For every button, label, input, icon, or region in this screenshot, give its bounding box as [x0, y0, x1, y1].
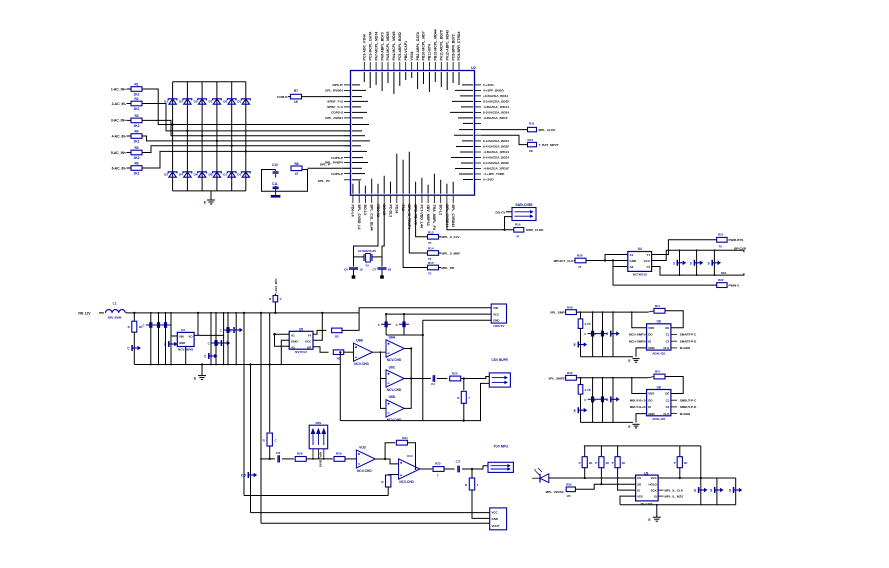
svg-text:C1: C1 — [666, 333, 670, 337]
svg-text:VOUT: VOUT — [492, 524, 500, 528]
wire cap-block loop — [262, 170, 308, 192]
svg-text:9-4-BAZGA_BD14: 9-4-BAZGA_BD14 — [483, 156, 509, 160]
resistor RP1 — [584, 446, 586, 457]
capacitor C4 — [170, 313, 172, 365]
svg-text:D5: D5 — [194, 100, 198, 104]
svg-text:VCC: VCC — [644, 259, 651, 263]
wire — [411, 378, 431, 380]
capacitor — [210, 313, 212, 365]
wire — [564, 311, 567, 313]
wire pin stub right 1 — [475, 84, 482, 86]
wire — [127, 152, 132, 154]
node SMBUT-P-C — [671, 399, 677, 401]
wire Y1 to R21 — [652, 240, 717, 255]
resistor R29 — [334, 457, 345, 462]
wire — [142, 146, 351, 153]
svg-text:PB2-ABPL_DATA: PB2-ABPL_DATA — [416, 31, 420, 60]
svg-text:R22: R22 — [718, 278, 724, 282]
wire pin stub bottom 15 — [440, 195, 442, 203]
diode D5 (TVS top row) — [198, 99, 205, 104]
svg-text:R/4: R/4 — [655, 370, 660, 374]
wire pin stub bottom 2 — [358, 195, 360, 203]
wire pin stub right 10 — [475, 134, 482, 136]
svg-text:PA12-ABPL_MD43: PA12-ABPL_MD43 — [445, 30, 449, 61]
svg-text:PB0-VCAP1: PB0-VCAP1 — [404, 41, 408, 61]
wire pin stub bottom 4 — [371, 195, 373, 203]
svg-text:9-3-BAZGA_BD14: 9-3-BAZGA_BD14 — [483, 111, 509, 115]
svg-text:E: E — [574, 409, 576, 413]
wire A1/A3 tie — [275, 334, 290, 346]
wire right verticals — [700, 446, 702, 505]
wire mini rail — [386, 334, 423, 336]
svg-text:75: 75 — [428, 241, 432, 245]
resistor R30 — [566, 487, 575, 492]
wire long vertical — [422, 320, 424, 420]
svg-text:P: P — [579, 461, 581, 465]
svg-text:R16: R16 — [515, 223, 521, 227]
svg-text:C11: C11 — [272, 182, 278, 186]
wire long feeder 4 — [269, 313, 271, 432]
svg-text:NCV-CHD: NCV-CHD — [399, 480, 414, 484]
svg-text:Y2: Y2 — [646, 265, 650, 269]
svg-text:VIN: VIN — [493, 306, 498, 310]
svg-text:NCV-CHD: NCV-CHD — [354, 362, 369, 366]
wire pin stub left 5 — [344, 106, 351, 108]
wire pin stub bottom 7 — [390, 195, 392, 203]
wire — [345, 458, 356, 460]
svg-text:18: 18 — [388, 268, 392, 272]
wire T_BAT net — [481, 135, 528, 144]
svg-text:PC3-ADC_V3N4: PC3-ADC_V3N4 — [363, 34, 367, 60]
wire bottom rail of TVS matrix — [173, 190, 246, 192]
wire bottom rail — [581, 356, 634, 358]
ground — [198, 375, 206, 377]
wire top rail — [126, 312, 359, 314]
svg-text:U6A: U6A — [389, 335, 396, 339]
svg-text:MPL_ALCE: MPL_ALCE — [539, 128, 556, 132]
svg-text:DO-CV: DO-CV — [496, 211, 507, 215]
resistor R2 — [131, 101, 142, 106]
wire column 3 — [201, 82, 203, 191]
svg-text:T_BAT_MPVT: T_BAT_MPVT — [539, 143, 559, 147]
svg-text:BPL_CVBD43: BPL_CVBD43 — [451, 204, 455, 227]
svg-text:47: 47 — [295, 172, 299, 176]
wire — [142, 89, 351, 125]
wire — [564, 377, 567, 379]
resistor R26 — [463, 379, 465, 391]
svg-text:C1: C1 — [431, 382, 435, 386]
svg-text:DPS-P!: DPS-P! — [333, 83, 344, 87]
wire GP out — [313, 347, 329, 353]
svg-text:2K2: 2K2 — [134, 107, 140, 111]
wire long feeder 2 — [250, 365, 252, 513]
wire to USB connector pin1 — [342, 308, 491, 331]
svg-text:M-ABM: M-ABM — [680, 346, 691, 350]
svg-text:L1: L1 — [113, 302, 117, 306]
svg-text:COPS-P: COPS-P — [331, 172, 343, 176]
ground — [352, 275, 356, 278]
resistor R23 — [332, 328, 342, 333]
diode D7 (TVS top row) — [213, 99, 220, 104]
svg-text:U14: U14 — [407, 454, 413, 458]
wire pin stub top 12 — [428, 62, 430, 71]
svg-text:EPL_RVB04: EPL_RVB04 — [325, 89, 343, 93]
resistor R4 — [131, 134, 142, 139]
wire from MCU to R16 — [447, 203, 514, 230]
svg-text:D1: D1 — [223, 173, 227, 177]
svg-text:R6: R6 — [134, 161, 138, 165]
svg-text:NCV-CHD: NCV-CHD — [387, 418, 402, 422]
svg-text:S: S — [690, 261, 692, 265]
svg-text:D9: D9 — [223, 100, 227, 104]
svg-text:R31: R31 — [402, 436, 408, 440]
wire Y4 out — [313, 330, 326, 334]
svg-text:5-AC_IN+: 5-AC_IN+ — [111, 151, 126, 155]
wire VCC jog to rail — [313, 313, 322, 340]
wire — [142, 104, 351, 131]
svg-text:24 MHZ/3.3V: 24 MHZ/3.3V — [358, 249, 377, 253]
connector J3 power — [491, 304, 506, 323]
wire pin stub bottom 14 — [433, 195, 435, 203]
resistor R28 — [295, 457, 306, 462]
resistor R24 — [333, 350, 343, 355]
svg-text:SMBUT-P-D: SMBUT-P-D — [680, 405, 697, 409]
svg-text:E: E — [628, 359, 630, 363]
wire pin stub top 11 — [423, 62, 425, 71]
ground — [632, 358, 639, 360]
wire pin stub left 11 — [344, 140, 351, 142]
node SMART-P-D — [671, 340, 677, 342]
svg-text:GND: GND — [648, 412, 654, 416]
svg-text:U6: U6 — [657, 320, 661, 324]
wire pin stub top 17 — [458, 62, 460, 71]
svg-text:VIN_12V: VIN_12V — [78, 311, 92, 315]
wire pin stub left 7 — [344, 117, 351, 119]
resistor R18 — [274, 294, 276, 296]
wire GND to ground — [636, 414, 647, 423]
wire — [437, 378, 448, 380]
svg-text:COPS-P: COPS-P — [331, 156, 343, 160]
wire — [142, 151, 351, 168]
svg-text:VU3: VU3 — [359, 446, 366, 450]
svg-text:D6: D6 — [194, 173, 198, 177]
svg-text:BPL_CVBD_L4: BPL_CVBD_L4 — [357, 205, 361, 230]
node junction — [245, 150, 247, 152]
wire pin stub right 8 — [475, 122, 482, 124]
wire pin stub left 15 — [344, 162, 351, 164]
svg-text:D3: D3 — [179, 100, 183, 104]
svg-text:A1: A1 — [291, 334, 295, 338]
svg-text:5-+3VD: 5-+3VD — [483, 83, 494, 87]
op-amp U7A — [356, 450, 375, 468]
wire — [462, 466, 488, 469]
wire pin stub right 4 — [475, 100, 482, 102]
resistor RP2 — [600, 446, 602, 457]
svg-text:25LC256: 25LC256 — [640, 502, 653, 506]
resistor R33 — [433, 467, 444, 472]
svg-text:P: P — [612, 461, 614, 465]
svg-text:R/4: R/4 — [655, 304, 660, 308]
svg-text:SI: SI — [637, 488, 640, 492]
wire pin stub bottom 3 — [364, 195, 366, 203]
svg-text:BRL-BBM: BRL-BBM — [108, 315, 122, 319]
svg-text:PB12-MCPL_MD44: PB12-MCPL_MD44 — [434, 29, 438, 60]
wire pin stub bottom 5 — [377, 195, 379, 203]
svg-text:D1: D1 — [164, 100, 168, 104]
node SMBUT-P-D — [671, 406, 677, 408]
wire pin stub top 4 — [381, 62, 383, 71]
svg-text:NCV-CHD: NCV-CHD — [387, 358, 402, 362]
svg-text:DPL_PVBP4: DPL_PVBP4 — [325, 161, 343, 165]
svg-text:C10: C10 — [272, 163, 278, 167]
capacitor C3 — [165, 313, 167, 365]
wire — [505, 217, 513, 230]
svg-text:MPL_BIAS: MPL_BIAS — [319, 452, 323, 467]
ground — [632, 423, 639, 425]
wire pin stub left 6 — [344, 111, 351, 113]
resistor R3 — [131, 118, 142, 123]
svg-text:D8: D8 — [208, 173, 212, 177]
svg-text:ADXL-B5: ADXL-B5 — [652, 352, 665, 356]
svg-text:GND: GND — [648, 346, 654, 350]
svg-text:C/7: C/7 — [456, 460, 461, 464]
node MPL_IL_CLK — [658, 489, 663, 491]
svg-text:SCK: SCK — [651, 488, 658, 492]
svg-text:R3: R3 — [134, 114, 138, 118]
wire to R22 — [613, 267, 717, 286]
capacitor branch 3 polarized — [612, 312, 614, 357]
svg-text:NCV-CHD: NCV-CHD — [357, 469, 372, 473]
wire pot pin — [323, 449, 325, 459]
wire U3 GND down — [185, 347, 187, 365]
wire pin stub bottom 13 — [427, 195, 429, 203]
resistor R15 — [428, 265, 439, 270]
capacitor C17 — [458, 466, 459, 473]
svg-text:6-AC_IN-: 6-AC_IN- — [112, 166, 126, 170]
wire pot pin — [312, 449, 314, 459]
wire pin stub top 3 — [375, 62, 377, 71]
svg-text:COPS-S: COPS-S — [331, 111, 343, 115]
svg-text:-4-BAZGA_1PD14: -4-BAZGA_1PD14 — [483, 150, 509, 154]
svg-text:U4: U4 — [638, 247, 642, 251]
svg-text:U6B: U6B — [356, 339, 363, 343]
svg-text:C7: C7 — [372, 268, 376, 272]
wire pin stub left 16 — [344, 167, 351, 169]
diode D12 (TVS bottom row) — [242, 172, 249, 177]
node junction — [186, 130, 188, 132]
wire pin stub top 9 — [411, 62, 413, 71]
svg-text:BPL_C3L_BL44: BPL_C3L_BL44 — [370, 204, 374, 230]
resistor R42 — [566, 375, 577, 380]
svg-text:R13: R13 — [428, 230, 434, 234]
wire top rail of TVS matrix — [173, 81, 246, 83]
capacitor C15 — [278, 455, 279, 462]
node junction — [172, 123, 174, 125]
svg-text:D1: D1 — [237, 173, 241, 177]
resistor R13 — [428, 235, 439, 240]
wire pin stub right 3 — [475, 95, 482, 97]
wire — [142, 120, 351, 135]
wire pin stub top 15 — [446, 62, 448, 71]
wire pin stub top 2 — [369, 62, 371, 71]
svg-text:GND: GND — [291, 340, 299, 344]
svg-text:+3V3_MPL: +3V3_MPL — [274, 278, 278, 293]
svg-text:C2: C2 — [666, 339, 670, 343]
wire pin stub right 18 — [475, 179, 482, 181]
svg-text:R2S: R2S — [315, 421, 321, 425]
svg-text:PWM-BTS: PWM-BTS — [729, 238, 744, 242]
svg-text:PA11-MCPL_BD75: PA11-MCPL_BD75 — [439, 30, 443, 60]
wire — [506, 211, 512, 213]
svg-text:E: E — [628, 425, 630, 429]
wire — [127, 88, 132, 90]
wire pin stub left 18 — [344, 179, 351, 181]
svg-text:BO-L3: BO-L3 — [363, 204, 367, 215]
wire — [274, 302, 276, 313]
svg-text:VPL_SMP2: VPL_SMP2 — [548, 376, 564, 380]
node MPL_IL_MZS — [658, 495, 663, 497]
resistor R21 — [717, 237, 727, 242]
svg-text:GP: GP — [307, 345, 311, 349]
svg-text:PA7-MCPL_MD74: PA7-MCPL_MD74 — [374, 32, 378, 61]
svg-text:D2: D2 — [164, 173, 168, 177]
svg-text:P: P — [595, 461, 597, 465]
svg-text:C1: C1 — [666, 398, 670, 402]
svg-text:2-AC_IN-: 2-AC_IN- — [112, 102, 126, 106]
wire bottom rail — [581, 421, 634, 423]
svg-text:U2: U2 — [471, 66, 476, 70]
wire to MCU pin — [308, 167, 351, 169]
node junction — [231, 145, 233, 147]
wire into U6B — [344, 351, 354, 353]
svg-text:GND: GND — [493, 319, 499, 323]
svg-text:R7: R7 — [294, 89, 298, 93]
svg-text:2K2: 2K2 — [134, 156, 140, 160]
capacitor C1 — [150, 313, 152, 365]
svg-text:R2: R2 — [335, 335, 339, 339]
svg-text:DI: DI — [648, 339, 651, 343]
wire pin stub left 8 — [344, 124, 351, 126]
wire VOUT — [194, 313, 198, 336]
op-amp U6A — [386, 340, 404, 357]
node MPL_PB — [439, 267, 442, 269]
svg-text:DO: DO — [648, 398, 653, 402]
svg-text:47: 47 — [516, 235, 520, 239]
svg-text:SPBF_T+S: SPBF_T+S — [327, 100, 343, 104]
svg-text:M-ABM: M-ABM — [680, 412, 691, 416]
resistor R32 — [388, 474, 398, 476]
svg-text:CLK: CLK — [663, 346, 670, 350]
svg-text:R8: R8 — [294, 162, 298, 166]
svg-text:9-4-BAZGA_BD14: 9-4-BAZGA_BD14 — [483, 139, 509, 143]
diode D11 (TVS top row) — [242, 99, 249, 104]
wire pot pin — [317, 449, 319, 459]
wire pin stub left 12 — [344, 145, 351, 147]
wire — [288, 96, 291, 98]
wire VSS loop — [620, 496, 636, 505]
wire pin stub top 6 — [393, 62, 395, 71]
wire — [142, 136, 351, 141]
capacitor branch 2 — [602, 312, 604, 357]
wire to bottom connector mid pin — [472, 490, 490, 518]
svg-text:PWM-V: PWM-V — [729, 284, 741, 288]
wire pin stub left 4 — [344, 100, 351, 102]
svg-text:MPL_VBUS#: MPL_VBUS# — [546, 490, 564, 494]
wire cap drop 2 — [403, 314, 405, 335]
resistor R22 — [717, 283, 727, 288]
resistor R41 — [580, 312, 582, 319]
svg-text:TOV MPU: TOV MPU — [493, 445, 508, 449]
resistor R12 — [528, 142, 537, 146]
svg-text:PA5-MCPL_MD55: PA5-MCPL_MD55 — [386, 32, 390, 61]
wire OE loop — [665, 377, 683, 394]
diode D10 (TVS bottom row) — [228, 172, 235, 177]
svg-text:PD14: PD14 — [395, 205, 399, 214]
wire column 1 — [172, 82, 174, 191]
wire SI pull — [618, 468, 636, 490]
wire pin stub bottom 10 — [408, 195, 410, 203]
wire column 2 — [186, 82, 188, 191]
svg-text:VSS: VSS — [637, 494, 643, 498]
ground — [653, 516, 661, 518]
svg-text:R5: R5 — [134, 146, 138, 150]
wire — [302, 96, 351, 98]
svg-text:SWD-CVBE: SWD-CVBE — [515, 203, 532, 207]
node M-ABM — [671, 413, 677, 415]
svg-text:NV7CV2: NV7CV2 — [295, 350, 307, 354]
svg-text:BO-L2: BO-L2 — [438, 205, 442, 216]
wire OSC_IN — [354, 203, 379, 257]
svg-text:9-3-BAZGA_BD1F: 9-3-BAZGA_BD1F — [483, 100, 509, 104]
wire VDD from rail — [632, 378, 647, 394]
wire input line — [261, 458, 275, 460]
svg-text:MBUY-B+1: MBUY-B+1 — [630, 398, 646, 402]
svg-text:VCC: VCC — [492, 510, 499, 514]
svg-text:ADXL-B5: ADXL-B5 — [652, 417, 665, 421]
resistor R17 — [133, 313, 135, 321]
ground — [380, 275, 384, 278]
op-amp U6D — [386, 400, 404, 417]
wire h2 — [251, 512, 490, 514]
svg-text:BP-CVB: BP-CVB — [734, 246, 747, 250]
svg-text:XBV_MBPS3: XBV_MBPS3 — [426, 204, 430, 225]
wire — [372, 349, 386, 353]
svg-text:R14: R14 — [428, 247, 434, 251]
resistor top pullup — [654, 308, 665, 313]
svg-text:+3-BAZGA_BD14: +3-BAZGA_BD14 — [483, 94, 508, 98]
wire — [461, 377, 490, 379]
svg-text:GND: GND — [492, 517, 498, 521]
wire feedback — [385, 443, 395, 459]
resistor R5 — [131, 150, 142, 155]
svg-text:P: P — [674, 461, 676, 465]
svg-text:MPL_S_CLV: MPL_S_CLV — [442, 235, 461, 239]
resistor R7 — [291, 94, 302, 99]
svg-text:R29: R29 — [336, 452, 342, 456]
wire VIN — [171, 335, 177, 337]
wire pin stub right 15 — [475, 162, 482, 164]
wire — [306, 458, 333, 460]
svg-text:MCU-SMP1: MCU-SMP1 — [629, 333, 645, 337]
wire pin stub bottom 16 — [446, 195, 448, 203]
svg-text:PA6-ABPL_BD73: PA6-ABPL_BD73 — [380, 32, 384, 60]
svg-text:MPL_IL_MZS: MPL_IL_MZS — [665, 494, 684, 498]
svg-text:Y2: Y2 — [365, 263, 369, 267]
svg-text:C/5: C/5 — [276, 451, 281, 455]
svg-text:PC2-MCPL_DATA: PC2-MCPL_DATA — [368, 31, 372, 61]
svg-text:PB11-BT4: PB11-BT4 — [428, 44, 432, 60]
svg-text:VCC: VCC — [493, 313, 500, 317]
